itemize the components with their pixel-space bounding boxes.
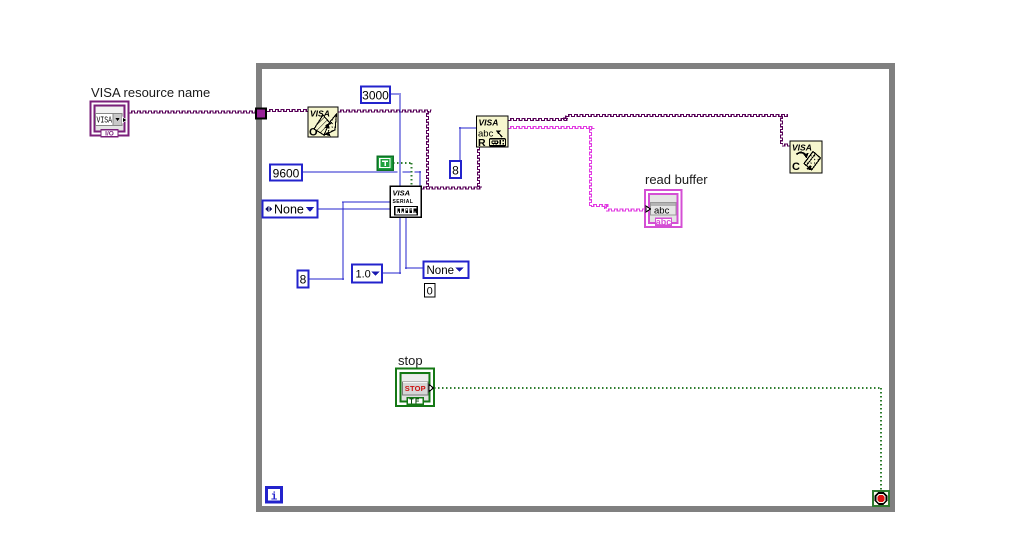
svg-text:VISA resource name: VISA resource name: [91, 85, 210, 100]
svg-text:read buffer: read buffer: [645, 172, 708, 187]
svg-text:I/O: I/O: [105, 131, 114, 138]
svg-text:C: C: [792, 161, 800, 173]
svg-text:SERIAL: SERIAL: [393, 199, 414, 205]
svg-text:VISA: VISA: [792, 143, 812, 153]
svg-text:TF: TF: [409, 398, 420, 405]
svg-text:abc: abc: [656, 217, 672, 227]
svg-text:stop: stop: [398, 353, 423, 368]
svg-text:R: R: [478, 137, 486, 149]
svg-text:STOP: STOP: [405, 384, 426, 393]
svg-text:VISA: VISA: [393, 189, 411, 198]
svg-text:VISA: VISA: [479, 118, 499, 128]
svg-text:i: i: [271, 492, 278, 504]
svg-text:VISA: VISA: [310, 109, 330, 119]
svg-text:3000: 3000: [362, 89, 389, 103]
svg-text:abc: abc: [654, 206, 670, 217]
svg-text:None: None: [274, 203, 304, 217]
svg-text:0: 0: [427, 286, 433, 298]
svg-text:None: None: [427, 265, 455, 277]
svg-text:1.0: 1.0: [356, 269, 371, 281]
svg-text:8: 8: [452, 164, 459, 178]
svg-text:8: 8: [300, 273, 307, 287]
svg-text:9600: 9600: [273, 167, 300, 181]
svg-text:VISA: VISA: [97, 116, 113, 126]
